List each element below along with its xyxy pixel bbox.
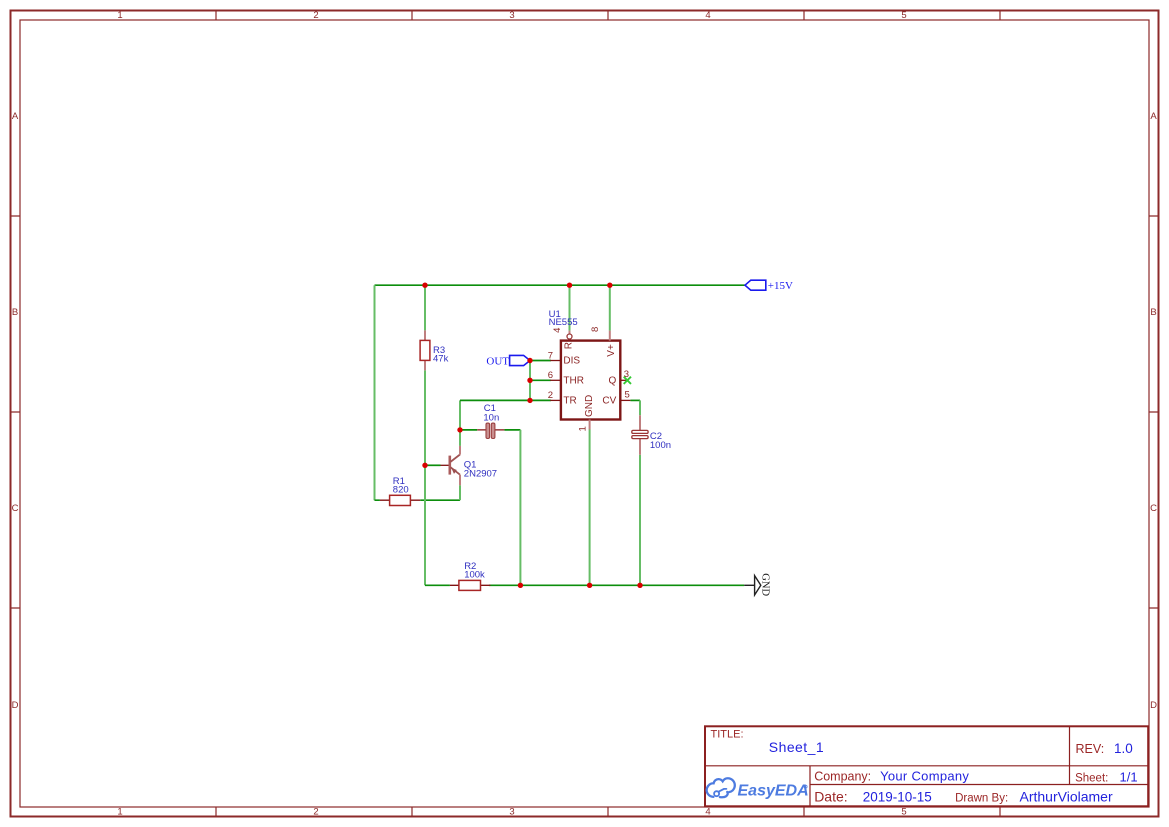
wire R1 row <box>375 499 461 501</box>
svg-text:4: 4 <box>705 10 710 21</box>
resistor R3 <box>420 330 448 370</box>
svg-text:4: 4 <box>705 807 710 818</box>
title block values <box>769 739 1138 805</box>
wire C1 row <box>460 429 520 431</box>
svg-text:5: 5 <box>625 390 630 401</box>
svg-text:TITLE:: TITLE: <box>711 729 744 741</box>
wire pin4 vertical <box>569 285 571 330</box>
svg-text:2N2907: 2N2907 <box>464 469 497 480</box>
svg-text:ArthurViolamer: ArthurViolamer <box>1020 789 1113 805</box>
wire pin6 <box>530 379 551 381</box>
svg-text:8: 8 <box>590 327 601 332</box>
svg-text:B: B <box>1150 307 1156 318</box>
wire OUT vertical <box>529 361 531 401</box>
wire Q1 collector riser <box>459 430 461 446</box>
svg-text:Your Company: Your Company <box>880 768 969 783</box>
capacitor C2 <box>632 415 671 455</box>
svg-text:10n: 10n <box>483 413 499 424</box>
svg-text:A: A <box>1150 111 1157 122</box>
svg-text:TR: TR <box>563 396 576 407</box>
svg-text:1: 1 <box>117 807 122 818</box>
net flag +15V <box>745 280 793 292</box>
svg-text:A: A <box>12 111 19 122</box>
svg-text:820: 820 <box>393 484 409 495</box>
svg-text:Date:: Date: <box>814 789 847 805</box>
wire TR net horizontal <box>460 399 551 401</box>
svg-text:2: 2 <box>548 390 553 401</box>
svg-text:EasyEDA: EasyEDA <box>738 783 809 800</box>
svg-text:3: 3 <box>509 10 514 21</box>
svg-text:D: D <box>1150 700 1157 711</box>
svg-text:THR: THR <box>563 375 584 386</box>
svg-text:2019-10-15: 2019-10-15 <box>863 790 932 805</box>
U1 pin 1 GND <box>577 395 595 432</box>
svg-text:GND: GND <box>759 573 770 596</box>
svg-text:Company:: Company: <box>814 769 871 783</box>
svg-text:2: 2 <box>313 10 318 21</box>
svg-text:3: 3 <box>509 807 514 818</box>
junction node dots <box>422 283 642 589</box>
wire C1 drop to ground rail <box>519 430 521 585</box>
svg-text:REV:: REV: <box>1076 742 1105 756</box>
resistor R2 <box>450 561 491 591</box>
U1 pin 7 DIS <box>548 350 581 366</box>
net flag GND <box>744 573 770 596</box>
wire VCC top rail <box>375 284 746 286</box>
svg-text:B: B <box>12 307 18 318</box>
EasyEDA logo cloud <box>707 778 735 797</box>
wire CV horizontal <box>630 399 640 401</box>
svg-text:D: D <box>12 700 19 711</box>
transistor Q1 <box>441 446 498 485</box>
svg-text:C: C <box>1150 503 1157 514</box>
svg-text:6: 6 <box>548 370 553 381</box>
resistor R1 <box>380 476 420 506</box>
svg-text:1.0: 1.0 <box>1114 741 1133 756</box>
title block <box>705 726 1148 806</box>
svg-text:+15V: +15V <box>768 280 793 292</box>
svg-text:DIS: DIS <box>563 356 580 367</box>
wire pin1 to ground rail <box>589 430 591 586</box>
U1 pin 5 CV <box>602 390 630 407</box>
svg-text:Q: Q <box>609 375 617 386</box>
wire pin7 <box>530 360 551 362</box>
wire TR net vertical <box>459 400 461 430</box>
svg-text:1/1: 1/1 <box>1120 770 1138 785</box>
wire Q1 base <box>425 464 441 466</box>
svg-text:Sheet_1: Sheet_1 <box>769 739 824 755</box>
svg-text:5: 5 <box>901 807 906 818</box>
wire pin8 vertical <box>609 285 611 330</box>
svg-text:OUT: OUT <box>486 355 509 367</box>
wire ground rail <box>425 584 744 586</box>
svg-text:1: 1 <box>117 10 122 21</box>
U1 pin 2 TR <box>548 390 577 406</box>
svg-text:2: 2 <box>313 807 318 818</box>
svg-text:100n: 100n <box>650 440 671 451</box>
svg-text:CV: CV <box>602 396 616 407</box>
wire R3 branch x=425 <box>424 285 426 585</box>
svg-text:NE555: NE555 <box>549 317 578 328</box>
U1 pin 8 V+ <box>590 327 617 357</box>
wire C2 verticals <box>639 400 641 585</box>
wire left vertical branch <box>374 285 376 500</box>
net flag OUT <box>486 355 530 367</box>
op-amp U1 NE555 body <box>549 309 621 420</box>
svg-text:7: 7 <box>548 350 553 361</box>
svg-text:GND: GND <box>584 395 595 417</box>
title block labels <box>711 729 1109 805</box>
capacitor C1 <box>477 403 504 438</box>
U1 pin 3 Q with no-connect cross <box>609 369 631 386</box>
svg-text:Sheet:: Sheet: <box>1075 773 1108 785</box>
svg-text:C: C <box>12 503 19 514</box>
svg-text:R: R <box>564 342 575 349</box>
svg-text:4: 4 <box>552 328 563 333</box>
svg-text:1: 1 <box>577 426 588 431</box>
U1 pin 4 reset with inversion circle <box>552 328 575 350</box>
svg-text:100k: 100k <box>464 569 485 580</box>
svg-text:Drawn By:: Drawn By: <box>955 793 1008 805</box>
svg-text:5: 5 <box>901 10 906 21</box>
U1 pin 6 THR <box>548 370 584 386</box>
svg-text:47k: 47k <box>433 354 449 365</box>
wire Q1 emitter drop <box>459 485 461 500</box>
svg-text:V+: V+ <box>606 344 617 357</box>
